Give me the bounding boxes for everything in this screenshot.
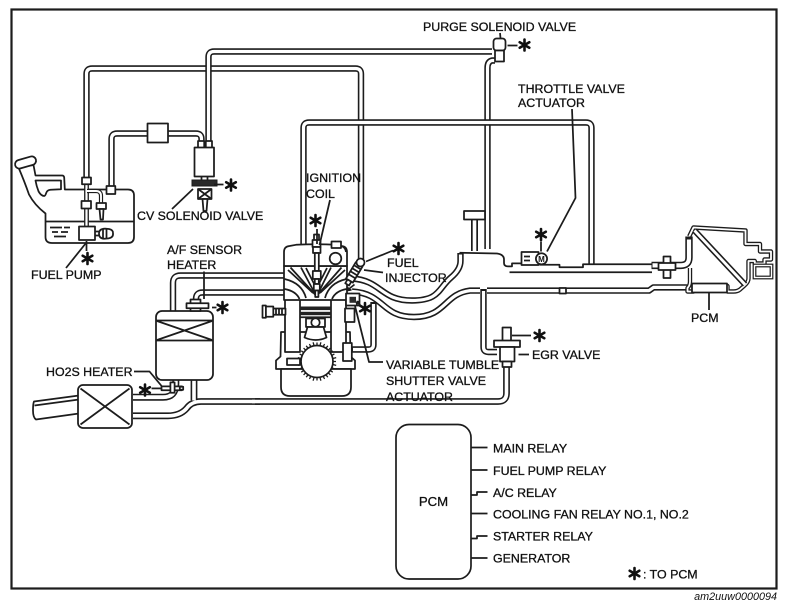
engine: cylinder head bbox=[284, 266, 347, 300]
svg-text:MAIN RELAY: MAIN RELAY bbox=[493, 442, 567, 456]
tank top fitting 2 bbox=[107, 186, 116, 194]
wire: throttle pipe loop (pipe C) bbox=[304, 123, 592, 265]
EGR feed pipe from duct bbox=[484, 289, 498, 352]
oil cap bbox=[332, 242, 342, 249]
duct bottom line (throttle to air cleaner) bbox=[510, 271, 653, 273]
fuel sender float bbox=[99, 229, 113, 239]
muffler (main catalytic converter) bbox=[78, 385, 132, 428]
svg-text:PURGE SOLENOID VALVE: PURGE SOLENOID VALVE bbox=[423, 20, 576, 34]
converter bottom drop tube to EGR run bbox=[191, 379, 198, 400]
svg-text:PCM: PCM bbox=[419, 494, 448, 509]
PCM relay ticks bbox=[471, 448, 488, 559]
air cleaner resonator bbox=[755, 266, 772, 278]
fuel pump bbox=[79, 227, 95, 241]
engine mount bolt bbox=[263, 306, 286, 318]
svg-text:: TO PCM: : TO PCM bbox=[643, 568, 698, 582]
harness: engine to PCM tray (tube 2) bbox=[352, 287, 692, 317]
CV solenoid valve bbox=[192, 141, 217, 211]
engine: piston pin bbox=[306, 319, 325, 328]
svg-text:M: M bbox=[538, 255, 545, 264]
svg-text:ACTUATOR: ACTUATOR bbox=[518, 96, 585, 110]
tail pipe bbox=[33, 396, 79, 420]
engine right upper box bbox=[345, 309, 355, 323]
svg-text:VARIABLE TUMBLE: VARIABLE TUMBLE bbox=[386, 358, 499, 372]
svg-text:IGNITION: IGNITION bbox=[306, 171, 361, 185]
engine: oil pan bbox=[281, 369, 351, 396]
svg-text:A/F SENSOR: A/F SENSOR bbox=[167, 243, 242, 257]
wire: converter to engine exhaust upper (pipe F) bbox=[173, 276, 285, 313]
purge solenoid valve bbox=[494, 39, 506, 62]
spark plug / coil stack bbox=[313, 235, 321, 298]
PCM box bbox=[396, 425, 471, 580]
HO2S heater sensor bbox=[162, 382, 184, 392]
engine: connecting rod bbox=[305, 327, 327, 340]
engine right lower box bbox=[343, 343, 352, 361]
air cleaner assembly bbox=[688, 228, 772, 292]
engine: valve cover bbox=[284, 244, 347, 266]
svg-text:INJECTOR: INJECTOR bbox=[385, 271, 447, 285]
VTSS actuator box on engine bbox=[346, 294, 360, 306]
collector top plateau and duct top line bbox=[460, 253, 653, 267]
svg-text:SHUTTER VALVE: SHUTTER VALVE bbox=[386, 374, 486, 388]
svg-text:FUEL: FUEL bbox=[387, 256, 419, 270]
hose: engine to intake collector riser (tube 1) bbox=[352, 253, 461, 301]
svg-text:COOLING FAN RELAY NO.1, NO.2: COOLING FAN RELAY NO.1, NO.2 bbox=[493, 508, 689, 522]
PCM module tray under air cleaner bbox=[692, 284, 727, 293]
harness connector nub bbox=[560, 288, 567, 294]
engine: piston rings bbox=[300, 307, 332, 311]
throttle valve actuator (M) bbox=[522, 252, 548, 265]
engine: crankcase bbox=[276, 332, 355, 369]
svg-text:HO2S HEATER: HO2S HEATER bbox=[46, 365, 133, 379]
fuel injector bbox=[343, 259, 364, 287]
in-tank valve fitting bbox=[82, 201, 92, 209]
engine: cylinder columns bbox=[285, 299, 300, 352]
engine: flywheel gear bbox=[298, 342, 336, 380]
wire: tank fitting2 to CV solenoid valve loop (pipe E) bbox=[112, 134, 202, 191]
in-tank branch pipe and pickup bbox=[87, 191, 101, 204]
svg-text:A/C RELAY: A/C RELAY bbox=[493, 486, 557, 500]
EGR valve bbox=[494, 328, 520, 368]
legend: asterisk TO PCM bbox=[630, 568, 640, 579]
svg-text:am2uuw0000094: am2uuw0000094 bbox=[694, 591, 777, 603]
exhaust pipe: muffler to converter bbox=[133, 379, 176, 397]
wire: CV solenoid valve to purge solenoid valve (pipe A) bbox=[209, 52, 493, 147]
tank top fitting 1 bbox=[82, 178, 91, 185]
wire: fuel tank to fuel injector (pipe B) bbox=[87, 69, 362, 261]
small arrow under injector bbox=[347, 285, 355, 291]
A/F sensor on converter bbox=[187, 300, 209, 312]
svg-text:ACTUATOR: ACTUATOR bbox=[386, 390, 453, 404]
fuel filler cap bbox=[14, 155, 37, 169]
purge T-fitting on collector bbox=[464, 211, 485, 251]
cross fitting on duct bbox=[659, 257, 676, 279]
fuel tank body with filler neck bbox=[19, 165, 135, 243]
svg-text:THROTTLE VALVE: THROTTLE VALVE bbox=[518, 82, 625, 96]
svg-text:CV SOLENOID VALVE: CV SOLENOID VALVE bbox=[137, 209, 263, 223]
check valve box on pipe E bbox=[148, 124, 169, 143]
warm-up catalytic converter canister bbox=[156, 311, 213, 380]
EGR pipe: under engine to EGR valve bbox=[255, 365, 507, 402]
wire: A/F sensor to engine exhaust lower (pipe G) bbox=[196, 293, 285, 302]
engine: left accessory box bbox=[287, 359, 300, 366]
svg-text:HEATER: HEATER bbox=[167, 258, 216, 272]
svg-text:EGR VALVE: EGR VALVE bbox=[532, 348, 600, 362]
svg-text:COIL: COIL bbox=[306, 187, 335, 201]
svg-text:FUEL PUMP: FUEL PUMP bbox=[31, 268, 101, 282]
svg-text:FUEL PUMP RELAY: FUEL PUMP RELAY bbox=[493, 464, 606, 478]
intake duct elbow into air cleaner bbox=[652, 237, 690, 266]
VTSS vacuum pipe loop bbox=[352, 302, 374, 350]
exhaust pipe: muffler lower to EGR run bbox=[133, 402, 260, 416]
svg-text:GENERATOR: GENERATOR bbox=[493, 552, 570, 566]
svg-text:STARTER RELAY: STARTER RELAY bbox=[493, 530, 593, 544]
in-tank fuel pipe bbox=[84, 184, 89, 228]
svg-text:PCM: PCM bbox=[691, 311, 719, 325]
wire: purge solenoid valve down to intake collector (pipe D) bbox=[488, 61, 496, 250]
